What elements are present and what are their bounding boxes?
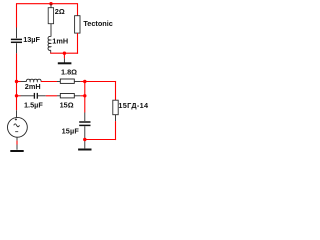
ground under wire	[58, 53, 72, 63]
node junction bottom	[83, 138, 86, 141]
wire under 1mH to Tectonic	[50, 52, 78, 54]
resistor R2 1.8Ω	[57, 67, 80, 83]
svg-text:1.8Ω: 1.8Ω	[61, 67, 77, 76]
wire mid vertical to 15µF	[84, 96, 86, 113]
svg-text:1mH: 1mH	[52, 36, 68, 45]
wire bottom horizontal	[85, 139, 116, 141]
ground under 15µF	[78, 149, 91, 151]
wire row1 middle	[41, 81, 57, 83]
node junction row2 mid	[83, 94, 86, 97]
inductor L1 1mH	[47, 35, 68, 53]
svg-text:1.5µF: 1.5µF	[24, 101, 43, 110]
wire Tectonic bottom lead	[77, 33, 79, 54]
wire speaker bottom lead	[115, 115, 117, 140]
svg-text:2Ω: 2Ω	[55, 7, 65, 16]
ground under source	[10, 150, 23, 152]
capacitor C3 15µF	[62, 113, 91, 149]
wire left vertical upper	[16, 3, 18, 27]
node junction ground tap	[63, 52, 66, 55]
speaker 15ГД-14	[113, 100, 149, 115]
wire mid vertical junction1 to junction2	[84, 82, 86, 96]
node junction row1 mid	[83, 80, 86, 83]
wire source top lead	[16, 110, 18, 118]
node junction row1 left	[15, 80, 18, 83]
node junction top	[49, 2, 52, 5]
wire row1 right to speaker corner	[80, 81, 116, 83]
resistor Tectonic	[75, 16, 113, 33]
svg-text:15ГД-14: 15ГД-14	[118, 101, 149, 110]
wire row2 right	[80, 95, 84, 97]
capacitor C1 13µF	[11, 28, 41, 54]
wire source bottom lead	[16, 137, 18, 150]
wire Tectonic top lead	[77, 3, 79, 16]
capacitor C2 1.5µF	[21, 93, 46, 110]
AC source G1	[8, 117, 28, 137]
wire row1 left	[17, 81, 21, 83]
node junction row2 left	[15, 94, 18, 97]
wire top horizontal	[17, 3, 78, 5]
wire row2 left	[17, 95, 21, 97]
svg-text:15µF: 15µF	[62, 126, 80, 135]
svg-text:2mH: 2mH	[25, 82, 41, 91]
svg-text:13µF: 13µF	[23, 35, 40, 44]
svg-text:15Ω: 15Ω	[60, 101, 74, 110]
resistor R3 15Ω	[57, 94, 80, 110]
wire row2 middle	[46, 95, 57, 97]
wire speaker top lead	[115, 81, 117, 100]
inductor L2 2mH	[21, 79, 42, 91]
resistor R1 2Ω	[48, 4, 65, 37]
svg-text:Tectonic: Tectonic	[83, 19, 112, 28]
wire left vertical middle	[16, 53, 18, 110]
